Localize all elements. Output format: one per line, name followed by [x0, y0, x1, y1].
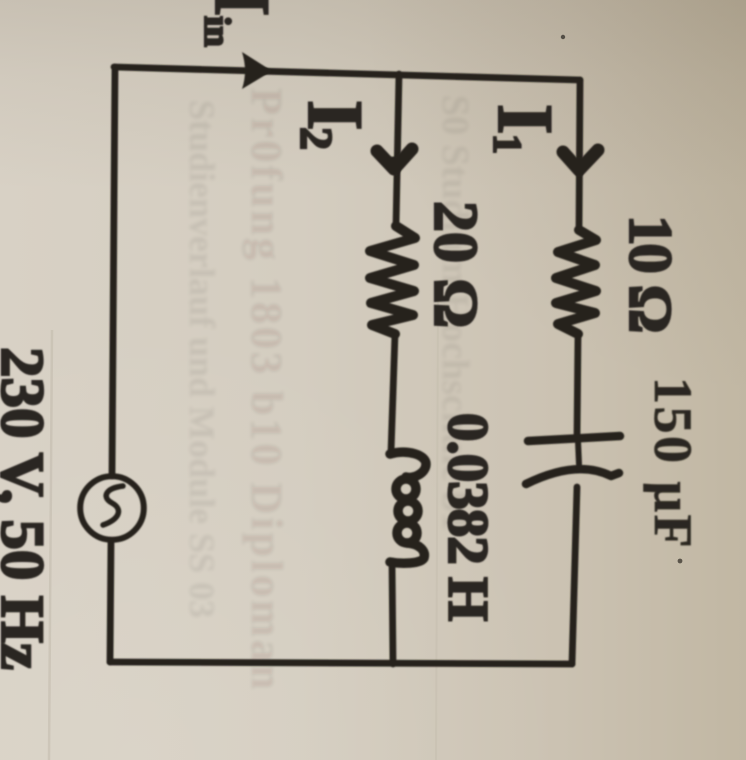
AC source sine wave — [103, 486, 123, 525]
capacitor C1 top plate — [528, 436, 620, 441]
wire right lower — [572, 487, 577, 664]
svg-text:0.0382 H: 0.0382 H — [436, 413, 499, 621]
wire left lower — [110, 541, 111, 662]
AC source V1 circle — [80, 476, 144, 540]
svg-text:Studienverlauf und Module SS 0: Studienverlauf und Module SS 03 — [182, 100, 222, 618]
svg-text:230 V, 50 Hz: 230 V, 50 Hz — [0, 347, 55, 670]
inductor L1 coil loops — [390, 452, 426, 563]
wire middle branch upper — [396, 74, 399, 226]
resistor R2 20ohm zigzag — [370, 226, 415, 334]
capacitor C1 bottom curved plate — [526, 469, 619, 484]
wire right upper — [579, 80, 580, 230]
svg-text:150 μF: 150 μF — [643, 377, 703, 550]
svg-text:in: in — [196, 16, 237, 47]
bleed-through ghost text — [182, 88, 476, 692]
svg-text:I: I — [199, 0, 286, 16]
wire bottom — [110, 662, 572, 664]
wire top — [114, 67, 580, 80]
specks — [561, 35, 565, 39]
wire right between R1 and C1 — [577, 334, 578, 437]
resistor R1 10ohm zigzag — [556, 230, 596, 334]
wire middle lower — [392, 561, 393, 664]
capacitor C1 stub through plate — [578, 441, 579, 464]
arrow Iin on top wire — [242, 52, 272, 89]
svg-text:10 Ω: 10 Ω — [616, 215, 683, 332]
svg-text:1: 1 — [485, 134, 530, 154]
svg-text:I: I — [482, 104, 569, 134]
svg-text:Pr0fung 1803 b10 Diploman: Pr0fung 1803 b10 Diploman — [242, 88, 291, 692]
wire middle between R2 and L1 — [391, 334, 395, 452]
arrow I1 on right branch — [563, 150, 598, 170]
svg-text:20 Ω: 20 Ω — [421, 201, 489, 328]
faint paper creases — [49, 330, 52, 760]
svg-text:I: I — [292, 100, 379, 130]
arrow I2 on middle branch — [377, 149, 412, 169]
svg-text:2: 2 — [291, 127, 342, 150]
wire left upper — [112, 67, 115, 476]
